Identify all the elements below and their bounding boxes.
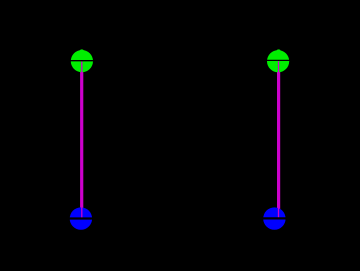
wire: black chord through node B	[69, 217, 94, 219]
node A top bump	[80, 49, 84, 52]
wire: black chord through node A	[70, 60, 95, 62]
wire: right vertical edge (thin magenta overlay)	[278, 61, 280, 219]
wire: left vertical edge (thin magenta overlay)	[81, 61, 83, 219]
node C: right green node	[267, 50, 289, 72]
wire: black chord through node C	[266, 59, 291, 61]
node C top bump	[277, 49, 281, 52]
wire: left vertical edge (thick magenta), node A to node B	[80, 61, 83, 219]
wire: right vertical edge (thick magenta), node C to node D	[277, 61, 280, 219]
wire: black chord through node D	[262, 217, 287, 219]
node B: left blue node	[70, 207, 92, 229]
node D: right blue node	[263, 207, 285, 229]
node A: left green node	[71, 50, 93, 72]
